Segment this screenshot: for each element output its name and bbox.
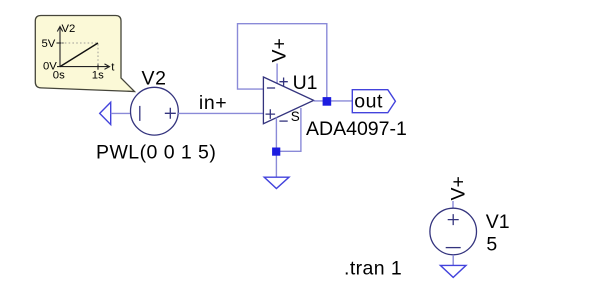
svg-text:S: S [291, 109, 300, 124]
tooltip plot y-axis [57, 27, 64, 67]
svg-text:5V: 5V [41, 38, 55, 50]
wire port to V2 [111, 112, 131, 114]
svg-text:V2: V2 [142, 68, 167, 90]
wire U1 V- pin to ground [275, 117, 277, 177]
wire V+ label to V1 [452, 201, 454, 208]
port flag input (left arrow) [100, 102, 111, 124]
junction output node [323, 97, 332, 106]
svg-text:V+: V+ [268, 38, 290, 62]
tooltip balloon for V2 PWL [35, 16, 134, 92]
voltage source V2 [131, 87, 179, 135]
wire feedback out to -in [238, 24, 327, 101]
wire V1 to ground [452, 255, 454, 266]
svg-text:in+: in+ [199, 92, 227, 114]
svg-text:V2: V2 [62, 23, 76, 35]
svg-text:V+: V+ [447, 176, 469, 200]
tooltip dotted guide 5V [61, 42, 98, 44]
svg-text:PWL(0 0 1 5): PWL(0 0 1 5) [96, 142, 216, 164]
svg-text:V1: V1 [486, 211, 510, 233]
wire S pin to V- node [277, 108, 301, 151]
wire U1 V+ pin [276, 64, 278, 85]
junction V- node [272, 148, 280, 156]
svg-text:out: out [354, 90, 383, 112]
tooltip ramp trace [60, 43, 98, 67]
svg-text:0s: 0s [53, 69, 65, 81]
wire U1 output to out port [314, 100, 353, 102]
tooltip dotted guide 1s [97, 44, 99, 66]
voltage source V1 [430, 208, 477, 255]
op-amp U1 [263, 77, 313, 124]
svg-text:.tran 1: .tran 1 [344, 258, 402, 280]
ground (below U1) [264, 177, 289, 188]
svg-text:1s: 1s [92, 69, 104, 81]
port flag out [352, 90, 395, 113]
wire V2 to U1 +in [178, 112, 263, 114]
svg-text:U1: U1 [293, 72, 318, 94]
tooltip plot x-axis [57, 64, 110, 70]
ground (below V1) [440, 265, 466, 277]
svg-text:ADA4097-1: ADA4097-1 [306, 118, 407, 140]
svg-text:5: 5 [486, 233, 497, 255]
